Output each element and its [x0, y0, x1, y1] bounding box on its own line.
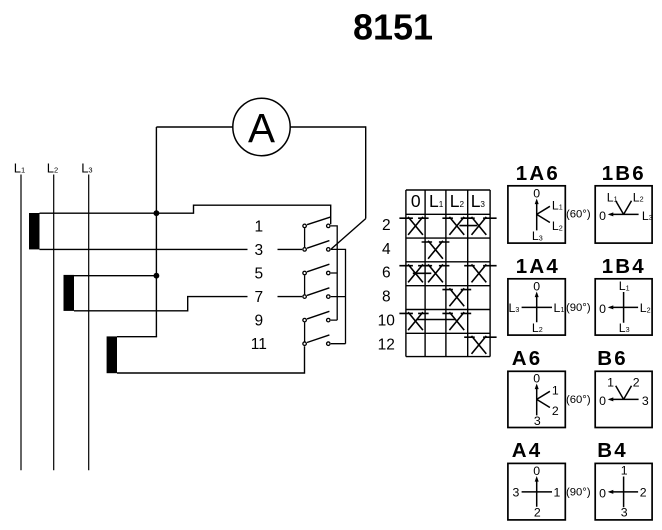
switch contact row 11 [303, 335, 330, 346]
position diagram 1A6 box [508, 186, 565, 243]
terminal labels 1,3,5,7,9,11 [251, 219, 267, 354]
current transformer T1 [29, 213, 40, 249]
svg-text:11: 11 [251, 336, 267, 353]
svg-text:(90°): (90°) [566, 302, 591, 314]
svg-text:3: 3 [534, 414, 541, 428]
table X mark row 2 col L3 [464, 217, 496, 235]
wire ammeter left to common node [156, 126, 232, 128]
svg-text:0: 0 [533, 372, 540, 386]
wire common vertical (CT secondary common) [155, 127, 157, 337]
table connector row 6 0-L1 [413, 272, 432, 274]
svg-text:(90°): (90°) [566, 486, 591, 498]
svg-text:3: 3 [642, 394, 649, 408]
svg-text:3: 3 [621, 505, 628, 519]
svg-text:2: 2 [534, 505, 541, 519]
svg-text:0: 0 [411, 191, 421, 211]
contact sequence table grid [406, 190, 490, 357]
svg-text:0: 0 [599, 302, 606, 316]
svg-text:(60°): (60°) [566, 209, 591, 221]
table header 0 L1 L2 L3 [411, 191, 486, 211]
svg-text:3: 3 [254, 242, 263, 259]
svg-text:B4: B4 [597, 439, 628, 462]
svg-text:2: 2 [640, 486, 647, 500]
svg-text:8151: 8151 [353, 6, 433, 47]
table X mark row 8 col L2 [442, 288, 471, 306]
svg-text:0: 0 [599, 486, 606, 500]
switch contact row 5 [303, 264, 330, 275]
svg-text:0: 0 [533, 280, 540, 294]
svg-text:1: 1 [554, 485, 561, 499]
svg-text:2: 2 [633, 375, 640, 389]
ammeter A [233, 98, 290, 155]
wire T3 top to common vertical [117, 336, 157, 338]
wire pair link 9-11 [304, 322, 306, 341]
switch contact row 1 [303, 217, 331, 228]
wire pair link 1-3 [304, 228, 306, 247]
position diagram 1A4 box [508, 279, 565, 335]
svg-text:1B6: 1B6 [602, 162, 646, 185]
wire bus B (contacts 4-8-12) [331, 249, 346, 343]
table X mark row 2 col L2 [442, 217, 471, 235]
wire T1 bottom to terminal 3 [40, 248, 303, 250]
svg-text:0: 0 [599, 209, 606, 223]
wire diagonal to contact 4 [331, 219, 365, 249]
svg-text:3: 3 [513, 485, 520, 499]
svg-text:2: 2 [552, 404, 559, 418]
svg-text:5: 5 [254, 266, 263, 283]
table X mark row 12 col L3 [464, 336, 496, 354]
current transformer T3 [107, 336, 117, 373]
wire bus A (contacts 2-6-10) [331, 226, 337, 320]
svg-text:1A6: 1A6 [516, 162, 560, 185]
svg-text:0: 0 [533, 464, 540, 478]
node junction T2/common [154, 273, 160, 279]
position diagram B6 box [595, 371, 652, 427]
node junction T1/common [154, 210, 160, 216]
terminal labels 2,4,6,8,10,12 [378, 217, 396, 354]
table connector row 2 L2-L3 [459, 225, 477, 227]
svg-text:1: 1 [607, 375, 614, 389]
switch contact row 7 [303, 288, 330, 299]
wire T2 top to common node [74, 275, 157, 277]
wire pair link 5-7 [304, 275, 306, 294]
wire T1 top to terminal 1 (stepped) [40, 205, 331, 224]
line L3 [81, 160, 92, 470]
svg-text:1: 1 [552, 383, 559, 397]
svg-text:10: 10 [378, 313, 396, 330]
svg-text:9: 9 [254, 313, 263, 330]
line L2 [47, 160, 58, 470]
position diagram A4 box [508, 463, 565, 520]
svg-text:A6: A6 [512, 347, 543, 370]
wire T2 bottom to terminal 7 [74, 297, 302, 311]
position diagram 1B6 box [595, 186, 652, 243]
svg-text:8: 8 [382, 289, 391, 306]
table X mark row 4 col L1 [422, 241, 450, 259]
table X mark row 6 col 0 [399, 264, 428, 282]
svg-text:A4: A4 [512, 439, 543, 462]
position diagram 1B4 box [595, 279, 652, 335]
svg-text:A: A [248, 105, 275, 151]
position diagram A6 box [508, 371, 565, 427]
switch contact row 9 [303, 311, 330, 322]
svg-text:1: 1 [254, 219, 263, 236]
table X mark row 10 col 0 [399, 312, 428, 330]
svg-text:12: 12 [378, 337, 395, 354]
current transformer T2 [64, 275, 75, 311]
line L1 [14, 160, 25, 470]
table X mark row 6 col L3 [464, 264, 496, 282]
svg-text:1: 1 [621, 464, 628, 478]
svg-text:6: 6 [382, 265, 391, 282]
table X mark row 2 col 0 [399, 217, 428, 235]
wire ammeter right [290, 126, 366, 128]
position diagram B4 box [595, 463, 652, 520]
svg-text:0: 0 [533, 187, 540, 201]
svg-text:1B4: 1B4 [602, 255, 646, 278]
svg-text:4: 4 [382, 241, 391, 258]
svg-text:(60°): (60°) [566, 394, 591, 406]
wire ammeter right vertical [365, 126, 367, 218]
wire T3 bottom to terminal 11 [117, 346, 305, 373]
svg-text:1A4: 1A4 [516, 255, 560, 278]
switch contact row 3 [303, 241, 330, 252]
svg-text:2: 2 [382, 217, 391, 234]
table X mark row 10 col L2 [442, 312, 471, 330]
svg-text:0: 0 [599, 394, 606, 408]
svg-text:B6: B6 [597, 347, 628, 370]
table X mark row 6 col L1 [422, 264, 450, 282]
table connector row 10 0-L2 [417, 319, 456, 321]
svg-text:7: 7 [254, 289, 263, 306]
